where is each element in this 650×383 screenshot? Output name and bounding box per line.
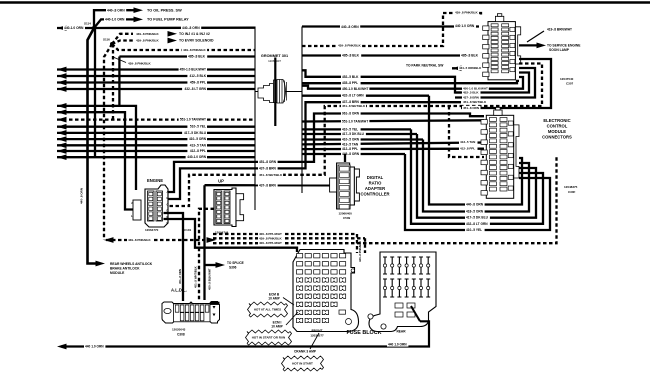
svg-text:CONTROLLER: CONTROLLER: [360, 192, 389, 197]
svg-text:961-.8 ORN: 961-.8 ORN: [342, 112, 360, 116]
UP connector: [214, 188, 244, 227]
svg-text:439-.8 PNK/BLK: 439-.8 PNK/BLK: [183, 48, 207, 52]
svg-text:12064770: 12064770: [145, 228, 159, 232]
svg-text:451-.8 WHT/BLK: 451-.8 WHT/BLK: [194, 266, 198, 288]
svg-text:437-.8 BRN: 437-.8 BRN: [463, 96, 479, 100]
svg-text:440-1.0 ORN: 440-1.0 ORN: [105, 18, 125, 22]
dashed pair down to rear fuse block: [356, 234, 358, 253]
wire 440-1.0 ORN to fuel pump relay: [94, 19, 131, 28]
wire 440-.8 ORN to oil press sw: [94, 10, 131, 28]
dashed vertical x113: [112, 44, 114, 119]
grommet center line: [255, 91, 302, 93]
DRAC top pin stub: [344, 154, 346, 162]
svg-text:437-.8 BRN: 437-.8 BRN: [259, 183, 277, 187]
wire 451-.8 WHT/BLK dashed branch into ECM connector 2: [449, 106, 484, 157]
wire 410-.5 ORN: [57, 138, 255, 140]
svg-text:417-.5 DK BLU: 417-.5 DK BLU: [342, 132, 365, 136]
svg-text:437-.8 BRN: 437-.8 BRN: [259, 166, 277, 170]
wire 439-.8 PNK/BLK to firewall: [112, 44, 255, 50]
svg-text:HOT AT ALL TIMES: HOT AT ALL TIMES: [254, 308, 281, 312]
svg-text:TO OIL PRESS. SW: TO OIL PRESS. SW: [147, 8, 182, 12]
callout box HOT IN START OR RUN: [247, 330, 290, 333]
svg-text:410-.5 ORN: 410-.5 ORN: [189, 137, 207, 141]
svg-text:GROMMET 301: GROMMET 301: [261, 54, 288, 58]
svg-text:MODULE: MODULE: [110, 271, 125, 275]
node S116: [110, 42, 114, 46]
svg-text:REAR WHEELS ANTILOCK: REAR WHEELS ANTILOCK: [110, 262, 153, 266]
wire 485 vertical: [118, 57, 120, 106]
svg-text:B: B: [167, 196, 169, 200]
ECM connector C307 (12047540): [483, 14, 521, 80]
wire 439-.8 PNK/BLK dashed b: [213, 237, 365, 239]
wire 439-.8 PNK/BLK firewall to ECM connector: [302, 13, 481, 46]
svg-text:TO SERVICE ENGINE: TO SERVICE ENGINE: [547, 44, 581, 48]
ECM C307 loop wire: [461, 81, 519, 83]
svg-text:417-.5 DK BLU: 417-.5 DK BLU: [466, 216, 489, 220]
wire 410-.5 ORN right: [302, 138, 423, 140]
svg-text:C509: C509: [343, 216, 351, 220]
wire 434-.5 ORN/BLK to park neutral switch: [452, 67, 479, 69]
svg-text:HOT IN START OR RUN: HOT IN START OR RUN: [252, 336, 285, 340]
wire 440-1.0 ORN left arrow: [57, 27, 94, 29]
wire 451-.8 ORN engine pin D to ALDL: [164, 213, 184, 301]
svg-text:410-.5 ORN: 410-.5 ORN: [342, 138, 360, 142]
wire 413-.5 TAN: [57, 144, 255, 146]
svg-text:C101: C101: [184, 228, 192, 232]
wire 439-.8 PNK/BLK to injectors: [112, 34, 133, 44]
svg-text:451-.8 ORN: 451-.8 ORN: [259, 160, 277, 164]
wire 440-1.0 ORN: [57, 156, 255, 158]
svg-text:432-.8 LT GRN: 432-.8 LT GRN: [342, 94, 364, 98]
svg-text:440 1.0 ORN: 440 1.0 ORN: [455, 24, 475, 28]
svg-text:12020043: 12020043: [172, 328, 186, 332]
svg-text:451-.8 ORN: 451-.8 ORN: [463, 106, 479, 110]
svg-text:SOON LAMP: SOON LAMP: [549, 48, 570, 52]
svg-text:439-.8 PNK/BLK: 439-.8 PNK/BLK: [338, 44, 362, 48]
svg-text:412-.8 PPL: 412-.8 PPL: [342, 147, 358, 151]
callout box HOT AT ALL TIMES: [249, 302, 286, 305]
diagonal wire in rear block: [411, 306, 420, 321]
svg-text:BRAKE ANTILOCK: BRAKE ANTILOCK: [110, 266, 140, 270]
wire 452-.5 BLK: [302, 70, 461, 92]
svg-text:440-.8 ORN: 440-.8 ORN: [341, 25, 359, 29]
wire 451-.8 WHT/BLK dashed from engine pin C: [164, 106, 462, 206]
svg-text:C: C: [167, 202, 169, 206]
svg-text:420-.8 PNK/BLK: 420-.8 PNK/BLK: [358, 241, 362, 262]
svg-text:A.L.D.L.: A.L.D.L.: [171, 288, 187, 293]
svg-text:450-1.0 BLK/WHT: 450-1.0 BLK/WHT: [180, 68, 206, 72]
svg-text:439-.8 PNK/BLK: 439-.8 PNK/BLK: [136, 39, 160, 43]
svg-text:412-.5 BLK: 412-.5 BLK: [190, 74, 207, 78]
svg-text:TO PARK NEUTRAL SW: TO PARK NEUTRAL SW: [406, 63, 444, 67]
ENGINE connector C101: [133, 185, 168, 227]
fuses grid: [297, 254, 352, 325]
svg-text:551-1.0 TAN/WHT: 551-1.0 TAN/WHT: [180, 118, 206, 122]
svg-text:551-1.0 TAN/WHT: 551-1.0 TAN/WHT: [342, 120, 368, 124]
wire 432-.8 LT GRN right: [302, 95, 429, 97]
grommet symbol: [258, 80, 287, 104]
svg-text:432-.8 LT GRN: 432-.8 LT GRN: [466, 222, 488, 226]
wire 419-.8 BRN/WHT service engine soon: [519, 44, 539, 46]
wire 440-.8 ORN to rear antilock module: [88, 28, 99, 264]
ECM connector C307 (12048375): [481, 107, 519, 198]
wire to engine pin J branch y105.9: [57, 106, 136, 190]
svg-text:451-.8 WHT/BLK: 451-.8 WHT/BLK: [342, 104, 366, 108]
svg-text:12066400: 12066400: [339, 212, 353, 216]
svg-text:K: K: [131, 208, 133, 212]
svg-text:418-.5 ORN: 418-.5 ORN: [466, 210, 484, 214]
wire 440-1.0 ORN down to S114 from fuse block line: [94, 28, 96, 157]
svg-text:413-.5 TAN: 413-.5 TAN: [190, 143, 207, 147]
wire 437-.8 BRN from engine pin B: [164, 102, 462, 199]
fuse block rear view: [368, 252, 436, 332]
svg-text:510-.5 YEL: 510-.5 YEL: [190, 125, 206, 129]
svg-text:HOT IN START: HOT IN START: [292, 362, 313, 366]
svg-text:ENGINE: ENGINE: [147, 178, 163, 183]
svg-text:439-.8 PNK/BLK: 439-.8 PNK/BLK: [136, 32, 160, 36]
wire 412-.8 PPL right: [302, 148, 484, 151]
svg-text:DIGITAL: DIGITAL: [367, 175, 384, 180]
svg-text:S116: S116: [103, 38, 110, 42]
wire 440-.8 ORN staircase: [429, 96, 522, 205]
wire 400-.8 PPL/WHT dashed a: [213, 233, 357, 235]
svg-text:435-.8 PPL: 435-.8 PPL: [342, 81, 358, 85]
svg-text:452-.5 BLK: 452-.5 BLK: [463, 91, 479, 95]
wire to engine pin K branch y112.2: [57, 112, 133, 209]
wire 450-.8 BLK/WHT ALDL riser: [203, 185, 205, 300]
wire 551-1.0 TAN/WHT: [57, 118, 255, 120]
wire 418-.5 ORN staircase: [423, 140, 529, 212]
dashed vertical from S116 down to 439 arrow wire: [104, 44, 112, 240]
svg-text:10 AMP: 10 AMP: [268, 297, 280, 301]
wire 510-.5 YEL: [57, 126, 255, 128]
svg-text:450-.8 BLK/WHT: 450-.8 BLK/WHT: [208, 268, 212, 290]
wire 440 1.0 ORN firewall to ECM connector C307: [302, 25, 479, 27]
svg-text:410-.5 YEL: 410-.5 YEL: [342, 127, 358, 131]
svg-text:439-.8 PNK/BLK: 439-.8 PNK/BLK: [455, 10, 479, 14]
wire 451-.8 ORN from engine pin A to 961-.8 ORN: [164, 114, 485, 193]
svg-text:10 AMP: 10 AMP: [271, 325, 283, 329]
svg-text:440-.8 ORN: 440-.8 ORN: [182, 26, 200, 30]
ALDL connector C308: [162, 302, 220, 324]
svg-text:A: A: [167, 190, 169, 194]
svg-text:CRANK 3 AMP: CRANK 3 AMP: [294, 350, 317, 354]
wire 435-.8 PPL: [302, 82, 461, 84]
wire 437-.8 BRN from ALDL vertical to DRAC: [205, 184, 331, 186]
wire 413-.5 TAN right: [302, 143, 484, 145]
ECM C307 loop wire 451-.8 ORN: [461, 59, 551, 108]
svg-text:417-.5 DK BLU: 417-.5 DK BLU: [184, 131, 207, 135]
svg-text:485-.8 BLK: 485-.8 BLK: [461, 54, 479, 58]
svg-text:440 1.0 ORN: 440 1.0 ORN: [85, 345, 104, 349]
wire 450-1.0 BLK/WHT: [57, 68, 255, 70]
svg-text:432-.8 LT GRN: 432-.8 LT GRN: [184, 87, 206, 91]
svg-text:400-.8 PPL/WHT: 400-.8 PPL/WHT: [259, 241, 282, 245]
wire 440 1.0 ORN bottom run: [61, 321, 429, 346]
svg-text:434-.5 ORN/BLK: 434-.5 ORN/BLK: [459, 66, 482, 70]
wire 440-.8 ORN to firewall: [94, 27, 255, 30]
svg-text:ADAPTER: ADAPTER: [365, 186, 385, 191]
svg-text:450-1.0 BLK/WHT: 450-1.0 BLK/WHT: [342, 87, 368, 91]
wire 417-.5 DK BLU: [57, 132, 255, 134]
svg-text:S306: S306: [229, 266, 237, 270]
dashed wire UP to ALDL: [199, 209, 214, 300]
svg-text:451-.8 ORN: 451-.8 ORN: [178, 269, 182, 284]
wire 551-1.0 TAN/WHT right: [302, 120, 484, 121]
svg-text:439-.8 PNK/BLK: 439-.8 PNK/BLK: [259, 236, 283, 240]
wire 412-.5 BLK: [57, 75, 255, 77]
wire 485-.8 BLK left of firewall: [119, 55, 255, 57]
DRAC connector C509: [330, 163, 360, 209]
wire 412-.8 PPL: [57, 150, 255, 152]
grommet 301 title: [257, 51, 302, 64]
svg-text:412-.8 PPL: 412-.8 PPL: [460, 147, 475, 151]
wire 449-.8 ORN right: [302, 153, 405, 155]
svg-text:S114: S114: [84, 22, 91, 26]
svg-text:413-.5 TAN: 413-.5 TAN: [342, 142, 359, 146]
svg-text:ELECTRONIC: ELECTRONIC: [543, 118, 570, 123]
svg-text:440-1.0 ORN: 440-1.0 ORN: [64, 26, 84, 30]
svg-text:412-.8 PPL: 412-.8 PPL: [190, 149, 206, 153]
fuse block front view: [293, 250, 359, 332]
wire 450-1.0 BLK/WHT: [302, 86, 461, 89]
svg-text:MODULE: MODULE: [548, 129, 566, 134]
svg-text:440-.8 ORN: 440-.8 ORN: [466, 203, 484, 207]
svg-text:439-.8 PNK/BLK: 439-.8 PNK/BLK: [128, 238, 152, 242]
svg-text:TO INJ #1 & INJ #2: TO INJ #1 & INJ #2: [179, 32, 210, 36]
svg-text:CONTROL: CONTROL: [547, 124, 568, 129]
firewall channel right wall: [301, 27, 303, 194]
wire 417-.5 DK BLU staircase: [417, 134, 536, 218]
svg-text:TO FUEL PUMP RELAY: TO FUEL PUMP RELAY: [147, 18, 189, 22]
node S114: [92, 26, 96, 30]
svg-text:452-.5 BLK: 452-.5 BLK: [342, 75, 359, 79]
svg-text:UP: UP: [218, 179, 224, 184]
svg-text:C30F: C30F: [568, 190, 576, 194]
svg-text:12048375: 12048375: [564, 185, 578, 189]
svg-text:TO EVRV SOLENOID: TO EVRV SOLENOID: [179, 39, 214, 43]
rear fuse pins: [383, 257, 430, 297]
firewall channel left wall: [254, 27, 256, 211]
svg-text:RATIO: RATIO: [369, 181, 382, 186]
svg-text:459-.8 PPL: 459-.8 PPL: [190, 81, 206, 85]
callout box HOT IN START: [283, 356, 322, 359]
wire 432-.8 LT GRN staircase: [411, 129, 543, 223]
wire from engine pin E to fuse block front: [164, 219, 298, 252]
svg-text:413-.5 TAN: 413-.5 TAN: [460, 140, 475, 144]
svg-text:419-.8 BRN/WHT: 419-.8 BRN/WHT: [547, 28, 572, 32]
callout 439-.8 PNK/BLK: [113, 57, 126, 63]
wire 400-.8 PPL/WHT dashed c: [213, 155, 557, 243]
wire 410-.5 YEL right: [302, 128, 411, 130]
svg-text:485-.8 BLK: 485-.8 BLK: [342, 54, 360, 58]
svg-text:12047540: 12047540: [560, 77, 574, 81]
svg-text:440-.8 ORN: 440-.8 ORN: [80, 188, 84, 204]
svg-text:485-.8 BLK: 485-.8 BLK: [188, 55, 206, 59]
wire 432-.8 LT GRN: [57, 88, 255, 90]
wire 485-.8 BLK firewall to ECM: [302, 54, 479, 56]
ECM C307 loop wire 450-1.0 BLK/WHT: [461, 77, 523, 89]
wire 417-.5 DK BLU right: [302, 133, 417, 135]
svg-text:440-.8 ORN: 440-.8 ORN: [107, 8, 125, 12]
ECM C307 loop wire: [461, 64, 542, 107]
ECM C307 loop wire 452-.5 BLK: [455, 73, 529, 93]
svg-text:440 1.0 ORN: 440 1.0 ORN: [388, 343, 407, 347]
svg-text:TO SPLICE: TO SPLICE: [227, 261, 244, 265]
grommet heavy vertical wire: [274, 58, 276, 127]
page top border line: [0, 1, 650, 3]
wire to splice S306: [205, 264, 220, 266]
svg-text:CONNECTORS: CONNECTORS: [542, 135, 572, 140]
wire 459-.8 PPL: [57, 81, 255, 83]
svg-text:451-.8 WHT/BLK: 451-.8 WHT/BLK: [463, 100, 487, 104]
svg-text:REAR: REAR: [396, 330, 406, 334]
svg-text:410-.5 YEL: 410-.5 YEL: [466, 228, 482, 232]
ECM C307 loop wire 437-.8 BRN: [455, 68, 535, 98]
svg-text:FRONT: FRONT: [312, 329, 323, 333]
wire 410-.5 YEL staircase: [405, 154, 550, 230]
svg-text:439-.8 PNK/BLK: 439-.8 PNK/BLK: [128, 62, 152, 66]
wire 439-.8 PNK/BLK to EVRV solenoid: [112, 41, 133, 45]
svg-text:C307: C307: [566, 82, 574, 86]
wire 439-.8 PNK/BLK double arrow at bottom left: [106, 239, 211, 241]
svg-text:451-.8 WHT/BLK: 451-.8 WHT/BLK: [259, 173, 283, 177]
svg-text:440-1.0 ORN: 440-1.0 ORN: [187, 155, 206, 159]
svg-text:C308: C308: [177, 333, 185, 337]
